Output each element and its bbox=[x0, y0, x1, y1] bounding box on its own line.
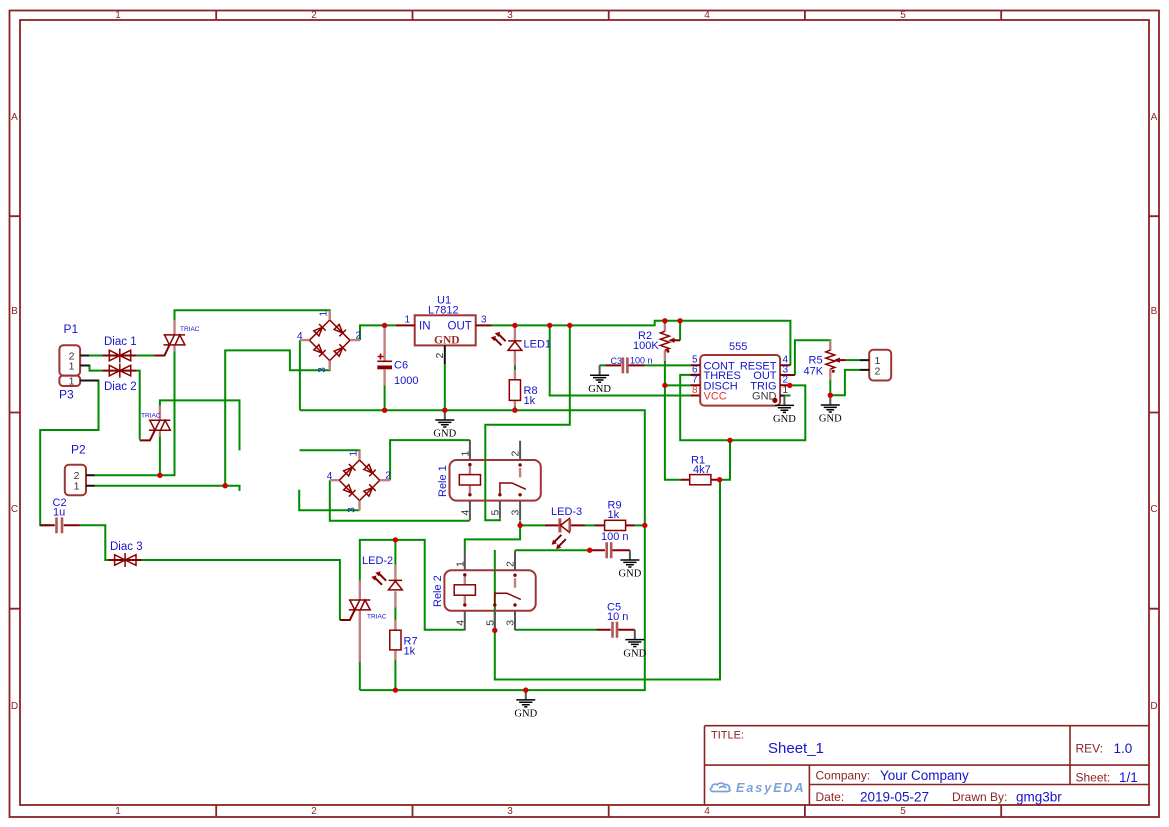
svg-text:100 n: 100 n bbox=[630, 356, 653, 366]
svg-text:A: A bbox=[1151, 112, 1158, 123]
wire LED-2 top bbox=[394, 540, 396, 566]
svg-text:1: 1 bbox=[74, 480, 80, 492]
svg-text:4: 4 bbox=[704, 10, 710, 21]
svg-text:5: 5 bbox=[484, 620, 496, 626]
svg-text:GND: GND bbox=[434, 335, 460, 347]
svg-text:3: 3 bbox=[510, 510, 522, 516]
svg-text:1k: 1k bbox=[404, 646, 416, 658]
COMPONENTS bbox=[40, 320, 417, 662]
diac Diac 1 bbox=[103, 336, 137, 363]
capacitor C6 electrolytic bbox=[377, 325, 418, 387]
svg-text:TRIAC: TRIAC bbox=[141, 413, 161, 420]
svg-text:4: 4 bbox=[297, 331, 303, 342]
wire relay1 pin3 node to LED-3 bbox=[520, 521, 545, 526]
svg-text:4: 4 bbox=[327, 471, 333, 482]
svg-text:10 n: 10 n bbox=[607, 611, 628, 623]
svg-text:Drawn By:: Drawn By: bbox=[952, 790, 1007, 804]
bridge rectifier B2 bbox=[327, 451, 392, 513]
wire P2 node up to bridge1 pin3 bbox=[225, 350, 330, 485]
wire bridge2 pin2 to relay1 pin1 bbox=[390, 440, 470, 480]
column ticks top bbox=[216, 11, 1001, 21]
potentiometer R5 47K bbox=[804, 340, 846, 380]
resistor R9 bbox=[595, 500, 635, 531]
svg-text:4: 4 bbox=[460, 510, 472, 516]
connector P3 bbox=[59, 375, 99, 401]
column labels bottom bbox=[115, 806, 906, 817]
svg-text:100 n: 100 n bbox=[601, 531, 629, 543]
svg-text:100K: 100K bbox=[633, 340, 659, 352]
triac TRIAC3 bbox=[340, 581, 387, 663]
wire TRIAC3 bottom to bottom-left rail bbox=[359, 662, 361, 691]
triac TRIAC1 bbox=[155, 320, 200, 355]
led LED-2 bbox=[362, 555, 402, 608]
svg-text:REV:: REV: bbox=[1076, 742, 1104, 756]
wire P1 pin1 to Diac2 bbox=[89, 366, 103, 371]
wire R1 right node bbox=[720, 440, 730, 479]
titleblock frame bbox=[705, 726, 1150, 805]
svg-text:1u: 1u bbox=[53, 507, 65, 519]
svg-text:4: 4 bbox=[704, 806, 710, 817]
svg-text:1.0: 1.0 bbox=[1114, 741, 1133, 756]
row labels left bbox=[11, 112, 18, 712]
svg-text:1: 1 bbox=[69, 375, 75, 387]
capacitor C2 bbox=[40, 497, 79, 533]
easyeda logo bbox=[710, 783, 730, 791]
triac TRIAC2 bbox=[140, 406, 171, 440]
bridge rectifier B1 bbox=[297, 311, 362, 373]
svg-text:Diac 2: Diac 2 bbox=[104, 381, 137, 393]
svg-text:3: 3 bbox=[505, 620, 517, 626]
svg-text:C3: C3 bbox=[611, 356, 623, 366]
svg-text:VCC: VCC bbox=[704, 391, 727, 403]
row ticks right bbox=[1149, 216, 1159, 609]
wire U1 GND pin to rail bbox=[444, 364, 446, 410]
relay Rele 1 bbox=[437, 440, 541, 520]
svg-text:3: 3 bbox=[507, 10, 513, 21]
svg-text:1: 1 bbox=[69, 360, 75, 372]
svg-text:C: C bbox=[1150, 504, 1157, 515]
capacitor C5 10n bbox=[597, 602, 635, 638]
svg-text:1k: 1k bbox=[524, 395, 536, 407]
wire LED1 R8 bottom bbox=[514, 365, 516, 410]
svg-text:B: B bbox=[1151, 306, 1158, 317]
wire 555 pin1 to GND flag bbox=[785, 395, 791, 397]
led LED1 bbox=[491, 325, 551, 365]
svg-text:IN: IN bbox=[419, 321, 431, 333]
svg-text:5: 5 bbox=[489, 510, 501, 516]
svg-text:2: 2 bbox=[434, 353, 446, 359]
TITLEBLOCK bbox=[705, 726, 1150, 805]
wire C3 to 555 CONT bbox=[599, 364, 690, 366]
regulator U1 L7812 bbox=[396, 295, 492, 365]
svg-text:P3: P3 bbox=[59, 388, 74, 402]
svg-text:Diac 3: Diac 3 bbox=[110, 541, 143, 553]
svg-text:2: 2 bbox=[311, 10, 317, 21]
wire relay1 pin5 drive bbox=[485, 325, 570, 520]
wire VCC branch bbox=[550, 325, 691, 395]
wire bridge2 pin1 stub left bbox=[300, 450, 360, 460]
svg-text:3: 3 bbox=[507, 806, 513, 817]
capacitor C4 100n bbox=[590, 531, 630, 558]
svg-text:8: 8 bbox=[692, 385, 698, 396]
svg-text:C: C bbox=[11, 504, 18, 515]
svg-text:Date:: Date: bbox=[816, 790, 845, 804]
wire Diac2 to TRIAC2 gate bbox=[137, 371, 140, 440]
relay Rele 2 bbox=[432, 550, 536, 630]
wire LED-3 to R9 bbox=[584, 524, 595, 526]
potentiometer R2 100K bbox=[633, 324, 680, 361]
svg-text:1: 1 bbox=[115, 806, 121, 817]
svg-text:OUT: OUT bbox=[448, 321, 472, 333]
svg-text:L7812: L7812 bbox=[428, 305, 459, 317]
wire bridge2 pin3 left bbox=[299, 490, 359, 511]
svg-text:555: 555 bbox=[729, 341, 747, 353]
row ticks left bbox=[10, 216, 21, 609]
svg-text:2019-05-27: 2019-05-27 bbox=[860, 790, 929, 805]
wire LED-2 to R7 bbox=[394, 607, 396, 621]
wire THRES loop bbox=[680, 375, 805, 440]
wire R9 to long vertical bbox=[635, 524, 645, 526]
svg-text:1: 1 bbox=[319, 311, 330, 317]
wire +rail U1.OUT to jog bbox=[492, 321, 791, 366]
svg-text:5: 5 bbox=[900, 806, 906, 817]
svg-text:Diac 1: Diac 1 bbox=[104, 336, 137, 348]
wire TRIAC2 bottom to P2 node bbox=[159, 436, 161, 475]
led LED-3 bbox=[545, 506, 585, 549]
svg-text:Rele 2: Rele 2 bbox=[432, 575, 444, 607]
wire R2 wiper to rail bbox=[679, 321, 681, 341]
ground flag U1 bbox=[433, 410, 456, 440]
wire relay1 pin4 to bridge2 pin4 bbox=[330, 480, 470, 521]
ic 555 bbox=[690, 341, 795, 406]
wire P1 pin2 to Diac1 bbox=[89, 355, 103, 357]
connector P4 right bbox=[860, 350, 892, 381]
svg-text:3: 3 bbox=[317, 367, 328, 373]
ground flag R5 bbox=[819, 395, 842, 425]
wire R2 top bbox=[664, 321, 666, 327]
svg-text:2: 2 bbox=[505, 561, 517, 567]
resistor R7 bbox=[390, 620, 418, 660]
ground flag C5 bbox=[623, 630, 646, 660]
wire relay1 pin3 node to relay2 pin1 bbox=[465, 525, 520, 550]
svg-text:47K: 47K bbox=[804, 365, 824, 377]
wire OUT to R5 top bbox=[795, 340, 830, 375]
wire C2 to Diac3 bbox=[80, 525, 109, 560]
svg-text:P1: P1 bbox=[64, 322, 79, 336]
diac Diac 2 bbox=[103, 364, 137, 393]
wire relay2 pin2 to cap C4 bbox=[515, 549, 590, 552]
svg-text:Sheet:: Sheet: bbox=[1076, 771, 1111, 785]
svg-text:2: 2 bbox=[356, 331, 362, 342]
wire TRIAC1 top to bridge1 pin1 bbox=[175, 310, 330, 320]
wire P3 to C2 bbox=[40, 381, 98, 526]
ground flag C4 bbox=[619, 550, 642, 580]
svg-text:1: 1 bbox=[405, 315, 411, 326]
ground flag 555 pin1 bbox=[773, 396, 796, 426]
svg-text:1/1: 1/1 bbox=[1119, 770, 1138, 785]
svg-text:5: 5 bbox=[900, 10, 906, 21]
connector P2 bbox=[65, 443, 95, 496]
svg-text:2: 2 bbox=[311, 806, 317, 817]
wire 555 VCC pin8 red bbox=[690, 395, 700, 397]
wire P2 pin2 to TRIAC1 bottom bbox=[94, 351, 175, 475]
capacitor C3 100n bbox=[606, 356, 653, 374]
wire relay2 pin4 to TRIAC3 top net bbox=[360, 540, 465, 630]
svg-text:EasyEDA: EasyEDA bbox=[736, 781, 806, 795]
svg-text:A: A bbox=[11, 112, 18, 123]
wire R5 wiper to connector pin1 bbox=[846, 359, 860, 361]
svg-text:LED1: LED1 bbox=[524, 339, 552, 351]
svg-text:C6: C6 bbox=[394, 360, 408, 372]
connector P1 bbox=[59, 322, 89, 376]
wire R2 bottom to DISCH and R1 bbox=[665, 361, 690, 480]
wire R5 bottom node bbox=[830, 370, 859, 395]
ground flag bottom rail bbox=[514, 690, 537, 720]
svg-text:1: 1 bbox=[348, 451, 359, 457]
wire TRIAC2 top branch bbox=[160, 400, 240, 450]
svg-text:4k7: 4k7 bbox=[693, 464, 711, 476]
svg-text:4: 4 bbox=[454, 620, 466, 626]
wire Diac1 to TRIAC1 gate bbox=[137, 355, 155, 357]
svg-text:Company:: Company: bbox=[816, 769, 871, 783]
svg-text:LED-2: LED-2 bbox=[362, 555, 393, 567]
svg-text:Sheet_1: Sheet_1 bbox=[768, 740, 824, 757]
wire bottom rail bbox=[300, 340, 645, 690]
wire relay2 pin3 to C5 bbox=[515, 629, 596, 631]
svg-text:TRIAC: TRIAC bbox=[180, 326, 200, 333]
wire bridge1 pin2 to +rail bbox=[360, 325, 396, 340]
ground flag C3 bbox=[588, 365, 611, 395]
svg-text:LED-3: LED-3 bbox=[551, 506, 582, 518]
svg-text:gmg3br: gmg3br bbox=[1016, 790, 1062, 805]
svg-text:3: 3 bbox=[347, 507, 358, 513]
svg-text:2: 2 bbox=[875, 366, 881, 378]
svg-text:TITLE:: TITLE: bbox=[711, 730, 744, 742]
wire C6 branch lower bbox=[384, 385, 386, 410]
column labels top bbox=[115, 10, 906, 21]
svg-text:D: D bbox=[11, 701, 18, 712]
svg-text:B: B bbox=[11, 306, 18, 317]
svg-text:D: D bbox=[1150, 701, 1157, 712]
svg-text:1k: 1k bbox=[608, 509, 620, 521]
svg-text:TRIAC: TRIAC bbox=[367, 614, 387, 621]
resistor R8 bbox=[509, 370, 537, 407]
resistor R1 bbox=[681, 455, 720, 485]
svg-text:1000: 1000 bbox=[394, 375, 418, 387]
diac Diac 3 bbox=[109, 541, 143, 567]
svg-text:P2: P2 bbox=[71, 443, 86, 457]
svg-text:1: 1 bbox=[460, 451, 472, 457]
column ticks bottom bbox=[216, 805, 1001, 817]
wire P2 pin1 net bbox=[94, 486, 240, 491]
svg-text:Your Company: Your Company bbox=[880, 768, 969, 783]
wire crossing vertical relay2 bbox=[495, 480, 720, 680]
svg-text:1: 1 bbox=[115, 10, 121, 21]
svg-text:2: 2 bbox=[510, 451, 522, 457]
wire Diac3 to TRIAC3 gate bbox=[142, 560, 340, 620]
row labels right bbox=[1150, 112, 1157, 712]
svg-text:1: 1 bbox=[454, 561, 466, 567]
svg-text:Rele 1: Rele 1 bbox=[437, 465, 449, 497]
svg-text:2: 2 bbox=[385, 471, 391, 482]
svg-text:3: 3 bbox=[481, 315, 487, 326]
wire R7 bottom bbox=[394, 660, 396, 691]
